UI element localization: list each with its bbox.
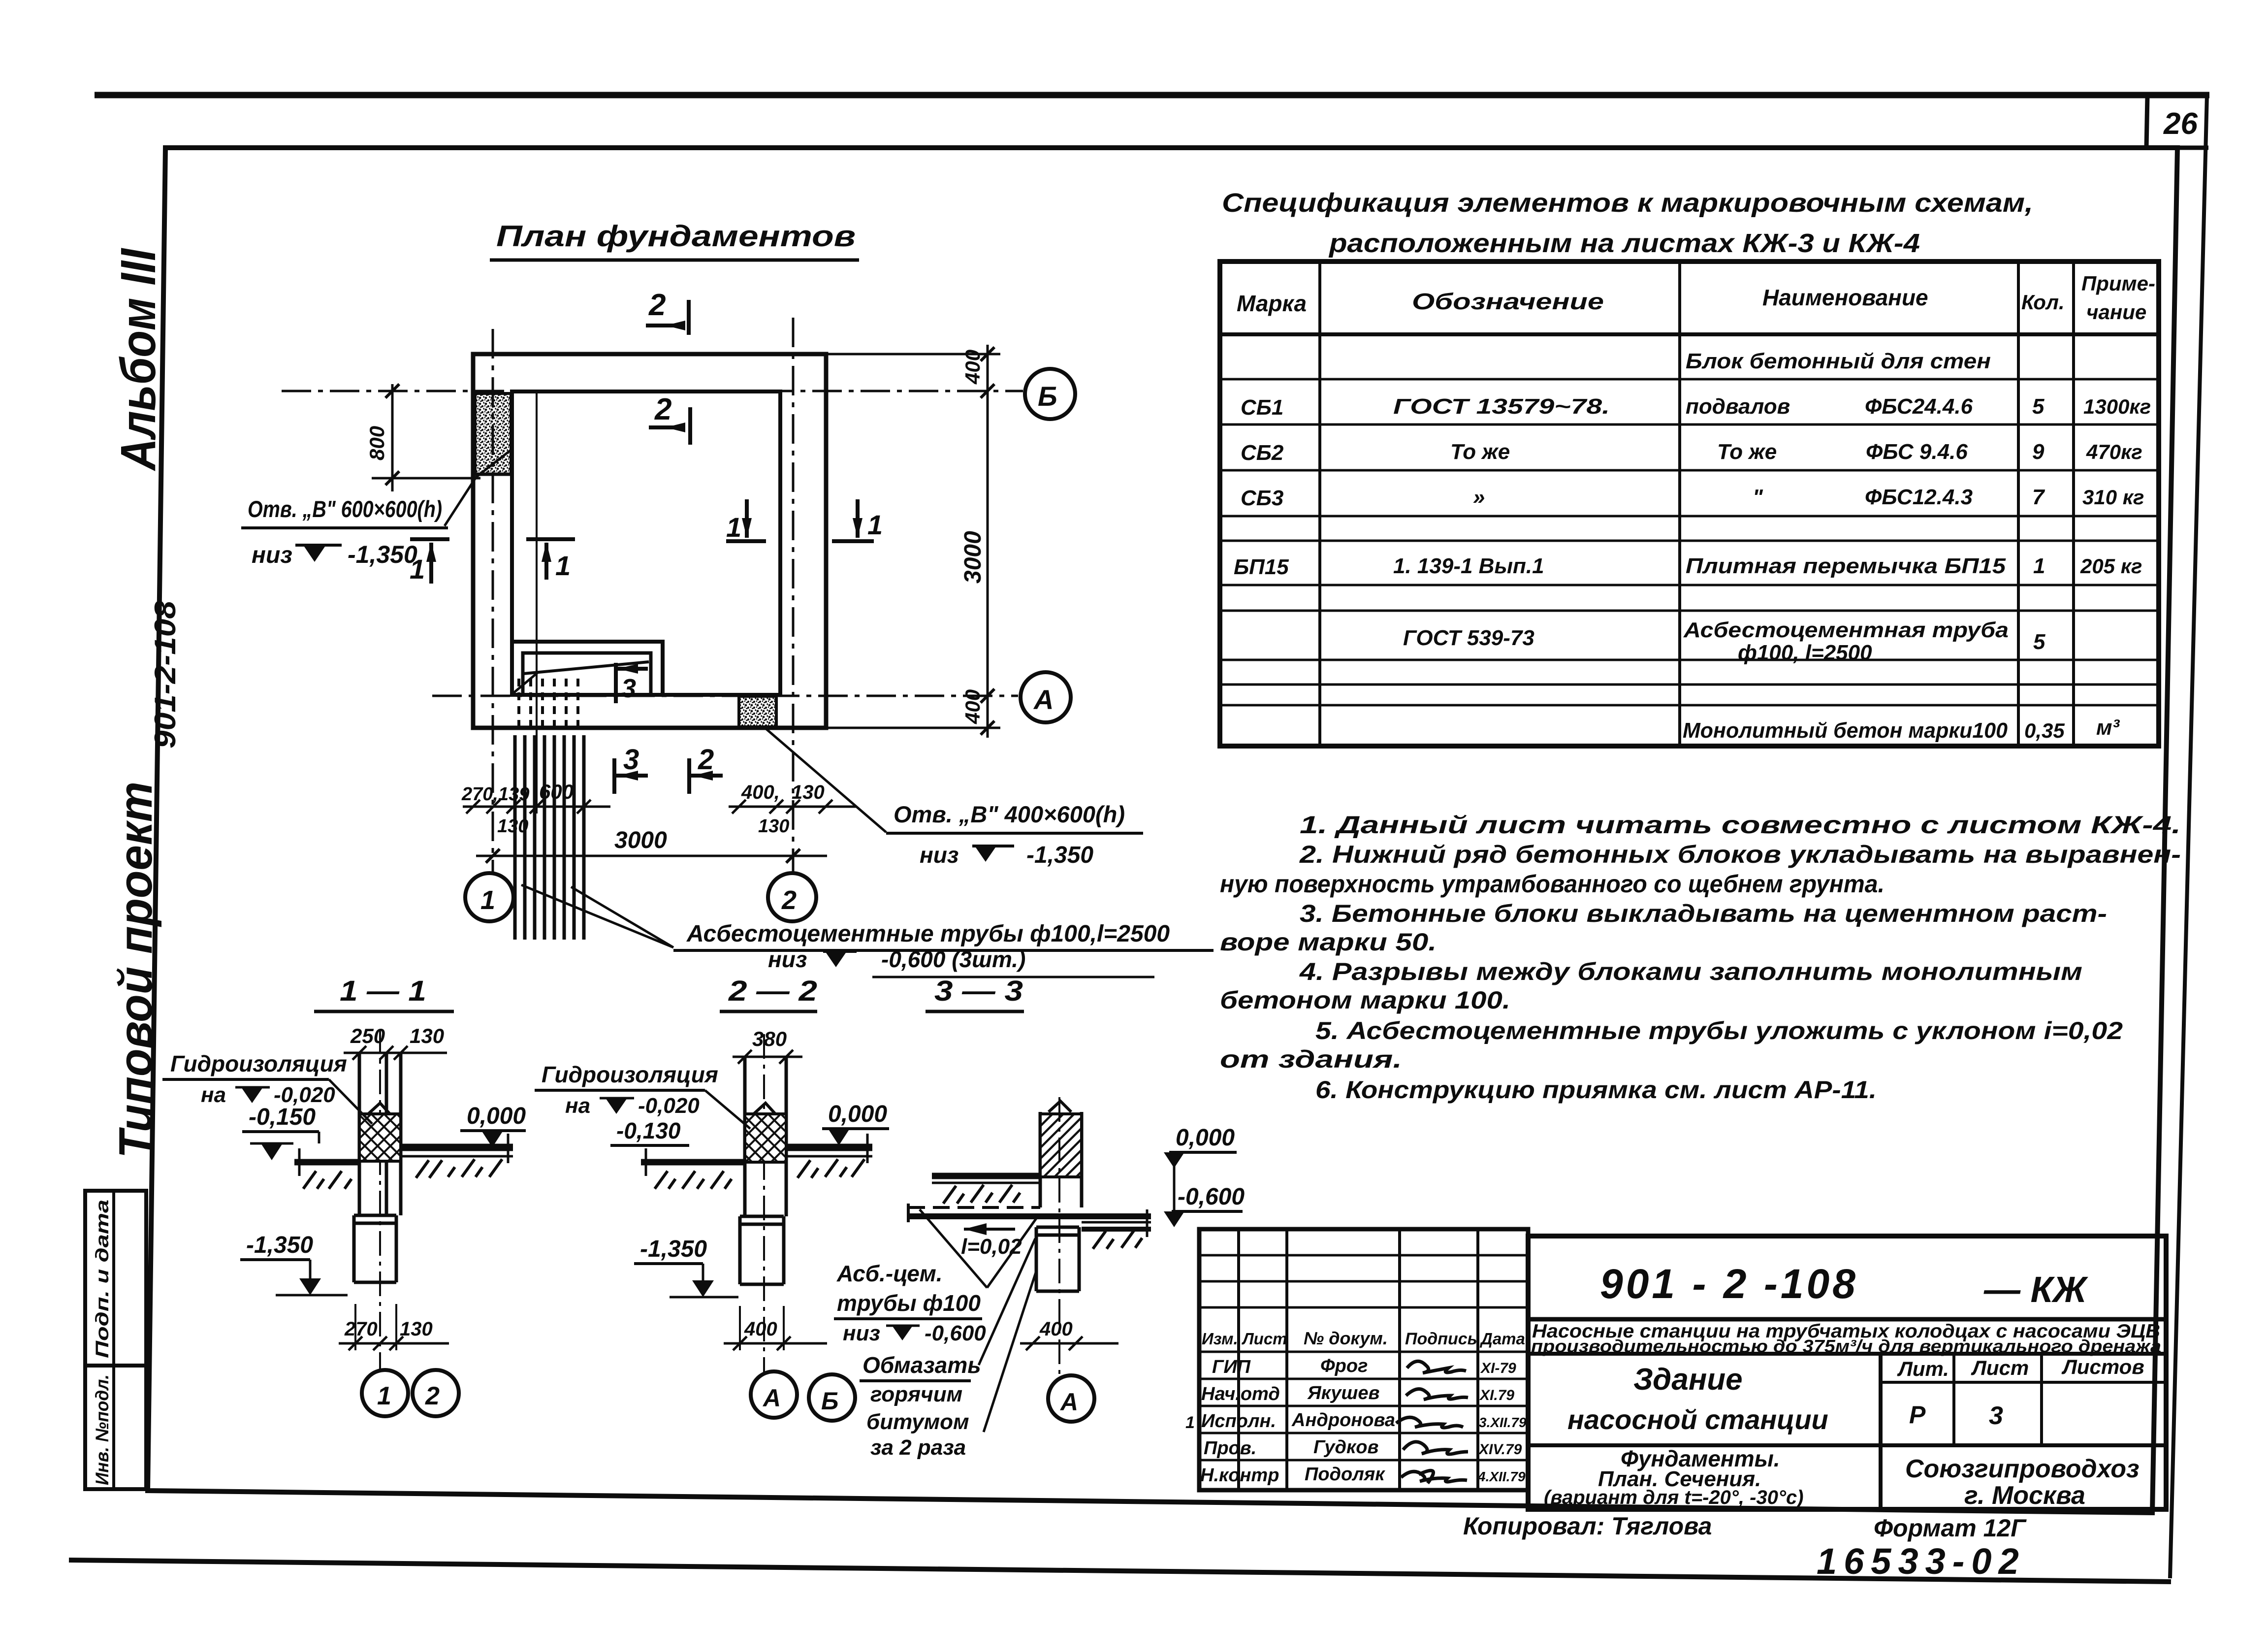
svg-text:Дата: Дата <box>1479 1330 1525 1348</box>
spec table row lines <box>1220 379 2159 705</box>
svg-text:310 кг: 310 кг <box>2082 486 2144 509</box>
svg-text:производительностью до 375м³/ч: производительностью до 375м³/ч для верти… <box>1531 1336 2161 1356</box>
axis 2 dash-dot line <box>792 318 795 873</box>
section flag 3 in pit <box>616 663 648 703</box>
svg-text:ф100, l=2500: ф100, l=2500 <box>1738 641 1872 665</box>
wall column lines <box>745 1058 786 1216</box>
svg-text:2: 2 <box>654 392 671 426</box>
svg-text:ФБС24.4.6: ФБС24.4.6 <box>1865 394 1973 419</box>
section mark 1 outside-left <box>410 539 449 584</box>
section circle A 3-3 <box>1048 1375 1094 1422</box>
svg-text:XIV.79: XIV.79 <box>1478 1441 1522 1458</box>
svg-text:Подпись: Подпись <box>1405 1330 1477 1348</box>
bottom-left dimension chain <box>536 391 538 814</box>
svg-text:Асбестоцементные трубы ф100,: Асбестоцементные трубы ф100,l=2500 <box>686 921 1170 947</box>
svg-text:Обмазать: Обмазать <box>862 1352 981 1378</box>
floor slab right <box>401 1144 513 1151</box>
foundation block 3-3 <box>1036 1227 1079 1291</box>
wall axis dash-dot <box>763 1034 765 1372</box>
plan title underline <box>490 259 859 262</box>
svg-text:3 — 3: 3 — 3 <box>934 975 1023 1007</box>
slope arrow <box>964 1228 1015 1231</box>
ground hatch left of wall <box>303 1171 351 1189</box>
svg-text:Обозначение: Обозначение <box>1412 289 1604 314</box>
svg-text:воре марки 50.: воре марки 50. <box>1220 928 1437 956</box>
svg-text:Нач.отд: Нач.отд <box>1201 1384 1280 1404</box>
wall column 3-3 <box>1040 1112 1082 1207</box>
svg-text:ГИП: ГИП <box>1212 1357 1251 1377</box>
section mark 1 inside-left <box>526 539 575 580</box>
svg-text:А: А <box>762 1384 781 1412</box>
svg-text:от здания.: от здания. <box>1220 1045 1402 1073</box>
svg-text:Б: Б <box>821 1387 838 1415</box>
svg-text:400: 400 <box>961 350 984 385</box>
svg-text:4. Разрывы между блоками за: 4. Разрывы между блоками заполнить монол… <box>1299 958 2082 985</box>
axis B dash-dot line <box>282 390 1023 392</box>
svg-text:1: 1 <box>867 509 883 540</box>
sidebar box: Inv N podl <box>85 1366 146 1489</box>
svg-text:7: 7 <box>2032 485 2045 509</box>
svg-text:То же: То же <box>1450 440 1510 464</box>
svg-text:Андронова: Андронова <box>1291 1410 1395 1431</box>
svg-text:№ докум.: № докум. <box>1304 1328 1388 1348</box>
ground line left 2-2 <box>641 1159 745 1166</box>
svg-text:130: 130 <box>758 816 789 837</box>
svg-text:0,35: 0,35 <box>2024 719 2065 742</box>
pit ramp short line <box>513 673 538 693</box>
ground hatch right of wall <box>416 1159 502 1178</box>
sidebar box: Podp i data <box>85 1191 146 1366</box>
foundation block 2-2 <box>740 1216 784 1284</box>
svg-text:Типовой проект: Типовой проект <box>109 782 162 1158</box>
svg-text:Приме-: Приме- <box>2081 272 2155 295</box>
svg-text:Монолитный бетон марки100: Монолитный бетон марки100 <box>1683 718 2008 743</box>
svg-text:Лист: Лист <box>1242 1330 1287 1348</box>
svg-text:Гудков: Гудков <box>1313 1437 1378 1458</box>
foundation block <box>354 1215 396 1282</box>
svg-text:Пров.: Пров. <box>1204 1438 1256 1459</box>
svg-text:Б: Б <box>1038 381 1057 412</box>
svg-text:2. Нижний ряд бетонных блок: 2. Нижний ряд бетонных блоков укладывать… <box>1299 841 2181 868</box>
svg-text:XI-79: XI-79 <box>1480 1360 1516 1376</box>
svg-text:1300кг: 1300кг <box>2083 395 2151 418</box>
svg-text:1: 1 <box>1185 1413 1195 1432</box>
svg-text:205 кг: 205 кг <box>2080 554 2142 578</box>
svg-text:Якушев: Якушев <box>1307 1383 1379 1403</box>
svg-text:16533-02: 16533-02 <box>1817 1541 2026 1582</box>
svg-text:6. Конструкцию приямка см.: 6. Конструкцию приямка см. лист АР-11. <box>1315 1076 1877 1104</box>
svg-text:26: 26 <box>2163 107 2198 141</box>
svg-text:ную поверхность утрамбованно: ную поверхность утрамбованного со щебнем… <box>1220 870 1885 898</box>
monolithic infill block top-left (stippled) <box>475 393 511 474</box>
svg-text:чание: чание <box>2086 300 2146 324</box>
spec table outer <box>1220 261 2159 746</box>
svg-text:Наименование: Наименование <box>1762 285 1928 310</box>
inner drawing frame <box>148 148 2177 1513</box>
svg-text:380: 380 <box>752 1027 787 1050</box>
svg-text:130: 130 <box>410 1024 444 1047</box>
svg-text:Листов: Листов <box>2061 1355 2144 1378</box>
leader from pipe to note <box>920 1209 1038 1288</box>
axis circle 1 <box>465 873 513 921</box>
signature squiggles <box>1407 1361 1466 1373</box>
svg-text:низ: низ <box>768 946 807 972</box>
svg-text:Н.контр: Н.контр <box>1200 1465 1279 1486</box>
svg-text:План фундаментов: План фундаментов <box>496 220 856 253</box>
svg-text:-1,350: -1,350 <box>246 1232 313 1258</box>
svg-text:м³: м³ <box>2096 716 2120 740</box>
right 400/3000 dimension chain <box>826 353 1000 356</box>
svg-text:1. 139-1 Вып.1: 1. 139-1 Вып.1 <box>1393 554 1544 578</box>
left 800 dimension <box>372 477 480 480</box>
svg-text:(вариант для t=-20°, -30°с): (вариант для t=-20°, -30°с) <box>1544 1487 1804 1508</box>
ground line left <box>294 1159 359 1166</box>
svg-text:-0,020: -0,020 <box>638 1094 700 1118</box>
svg-text:0,000: 0,000 <box>828 1101 887 1127</box>
axis circle B <box>1025 369 1075 419</box>
svg-text:СБ3: СБ3 <box>1241 486 1283 510</box>
svg-text:То же: То же <box>1717 440 1777 464</box>
svg-text:Лист: Лист <box>1971 1356 2029 1379</box>
inner wall rectangle <box>512 391 780 695</box>
vertical divider building name / lit <box>1879 1354 1883 1509</box>
svg-text:Асб.-цем.: Асб.-цем. <box>836 1261 943 1286</box>
svg-text:1. Данный лист читать совме: 1. Данный лист читать совместно с листом… <box>1300 811 2181 839</box>
svg-text:2 — 2: 2 — 2 <box>728 975 817 1007</box>
svg-text:Р: Р <box>1909 1401 1926 1429</box>
section circles 1 and 2 <box>362 1370 408 1416</box>
svg-text:XI.79: XI.79 <box>1479 1387 1514 1403</box>
floor slab right 2-2 <box>786 1144 872 1151</box>
svg-text:130: 130 <box>792 782 825 803</box>
svg-text:Подп. и дата: Подп. и дата <box>92 1200 112 1358</box>
svg-text:-0,600 (3шт.): -0,600 (3шт.) <box>881 946 1025 972</box>
svg-text:2: 2 <box>425 1382 440 1410</box>
svg-text:3000: 3000 <box>960 531 986 584</box>
svg-text:за 2 раза: за 2 раза <box>870 1435 966 1460</box>
outer wall rectangle <box>473 354 826 728</box>
svg-text:1: 1 <box>2033 554 2045 578</box>
svg-text:трубы ф100: трубы ф100 <box>837 1290 981 1316</box>
svg-text:5: 5 <box>2032 394 2044 419</box>
svg-text:Формат 12Г: Формат 12Г <box>1874 1514 2027 1542</box>
svg-text:низ: низ <box>920 842 958 868</box>
svg-text:Асбестоцементная труба: Асбестоцементная труба <box>1683 618 2009 642</box>
title block main outline <box>1528 1236 2166 1509</box>
pipe bottom thick line <box>908 1213 1151 1219</box>
section circles A and B <box>751 1371 797 1418</box>
asbestos pipes bundle <box>515 735 584 940</box>
ground hatch left 2-2 <box>655 1171 732 1189</box>
leaders to asbestos pipe note <box>521 885 673 947</box>
svg-text:СБ1: СБ1 <box>1241 395 1283 420</box>
svg-text:бетоном марки 100.: бетоном марки 100. <box>1220 986 1510 1014</box>
bottom-right dimension chain <box>729 806 857 808</box>
svg-text:Союзгипроводхоз: Союзгипроводхоз <box>1905 1455 2140 1483</box>
pit (priyamok) outer <box>512 642 663 695</box>
svg-text:-0,600: -0,600 <box>1178 1184 1245 1210</box>
svg-text:Блок бетонный для стен: Блок бетонный для стен <box>1686 349 1991 373</box>
svg-text:l=0,02: l=0,02 <box>961 1235 1022 1259</box>
bottom dim 400 3-3 <box>1020 1342 1118 1345</box>
sheet number box <box>2146 97 2147 148</box>
hatched wall 3-3 <box>1040 1114 1082 1177</box>
outer right border line <box>2170 95 2207 1578</box>
svg-text:3: 3 <box>623 744 639 776</box>
svg-text:БП15: БП15 <box>1234 555 1289 579</box>
svg-text:130: 130 <box>400 1318 433 1340</box>
spec table header bottom <box>1220 332 2159 336</box>
ground hatch right 2-2 <box>798 1159 864 1178</box>
svg-text:-0,600: -0,600 <box>925 1321 986 1345</box>
svg-text:Здание: Здание <box>1633 1363 1743 1397</box>
svg-text:3: 3 <box>621 674 636 703</box>
svg-text:на: на <box>201 1083 226 1107</box>
svg-text:Отв. „В" 400×600(h): Отв. „В" 400×600(h) <box>894 801 1125 827</box>
svg-text:подвалов: подвалов <box>1686 394 1790 419</box>
svg-text:-1,350: -1,350 <box>348 541 417 568</box>
svg-text:А: А <box>1033 684 1054 715</box>
ground hatch left 3-3 <box>943 1185 1020 1204</box>
svg-text:901 - 2 -108: 901 - 2 -108 <box>1600 1261 1858 1307</box>
svg-text:3.XII.79: 3.XII.79 <box>1479 1415 1527 1430</box>
svg-text:горячим: горячим <box>870 1382 962 1406</box>
svg-text:низ: низ <box>843 1321 880 1345</box>
cross-hatched wall section <box>359 1114 401 1161</box>
pipes dashed through wall <box>519 679 578 734</box>
svg-text:Гидроизоляция: Гидроизоляция <box>170 1051 347 1076</box>
axis circle 2 <box>768 873 816 921</box>
axis A dash-dot line <box>432 695 1018 697</box>
outer top border line <box>95 92 2209 98</box>
svg-text:0,000: 0,000 <box>467 1103 526 1129</box>
svg-text:ГОСТ 13579~78.: ГОСТ 13579~78. <box>1393 394 1610 419</box>
svg-text:насосной станции: насосной станции <box>1567 1404 1828 1435</box>
svg-text:0,000: 0,000 <box>1176 1125 1235 1151</box>
row: project name cell bottom <box>1528 1352 2166 1356</box>
section mark 2 below wall <box>689 758 723 794</box>
svg-text:2: 2 <box>648 288 666 322</box>
section mark 1 right of right wall <box>832 499 874 541</box>
svg-text:5. Асбестоцементные трубы ул: 5. Асбестоцементные трубы уложить с укло… <box>1315 1017 2123 1044</box>
axis 3-3 <box>1058 1097 1060 1374</box>
svg-text:ГОСТ 539-73: ГОСТ 539-73 <box>1403 626 1534 650</box>
ground line right 3-3 <box>1082 1221 1151 1224</box>
cross-hatched wall section 2-2 <box>745 1114 786 1162</box>
svg-text:Инв. №подл.: Инв. №подл. <box>92 1374 112 1485</box>
svg-text:-1,350: -1,350 <box>640 1236 707 1262</box>
svg-text:1: 1 <box>555 550 571 581</box>
svg-text:400,: 400, <box>741 782 780 803</box>
title block left table outer <box>1199 1229 1528 1490</box>
svg-text:270,139: 270,139 <box>461 784 529 805</box>
wall column lines <box>359 1054 401 1215</box>
bottom dim 400 2-2 <box>740 1306 784 1350</box>
svg-text:400: 400 <box>961 689 984 724</box>
pit ramp line <box>523 662 649 674</box>
svg-text:5: 5 <box>2033 630 2045 654</box>
svg-text:400: 400 <box>1039 1318 1073 1340</box>
svg-text:г. Москва: г. Москва <box>1964 1481 2085 1510</box>
middle band divider <box>1528 1443 2166 1447</box>
svg-text:3: 3 <box>1989 1401 2003 1430</box>
svg-text:Плитная перемычка БП15: Плитная перемычка БП15 <box>1686 554 2006 578</box>
outer bottom border line <box>69 1560 2171 1582</box>
svg-text:270: 270 <box>344 1318 378 1340</box>
svg-text:низ: низ <box>252 542 292 568</box>
svg-text:901-2-108: 901-2-108 <box>149 600 182 749</box>
svg-text:470кг: 470кг <box>2086 440 2142 463</box>
axis 1 dash-dot line <box>492 329 494 873</box>
svg-text:3. Бетонные блоки выкладыват: 3. Бетонные блоки выкладывать на цементн… <box>1300 900 2107 927</box>
ground line left 3-3 <box>932 1173 1040 1179</box>
pit inner offset <box>523 653 651 695</box>
left table columns <box>1239 1229 1478 1490</box>
svg-text:— КЖ: — КЖ <box>1983 1269 2088 1310</box>
leaders obmazat <box>979 1238 1037 1432</box>
svg-text:9: 9 <box>2032 440 2044 464</box>
3000 dimension bottom <box>476 855 827 857</box>
left table rows <box>1199 1255 1528 1460</box>
svg-text:Гидроизоляция: Гидроизоляция <box>542 1062 718 1087</box>
svg-text:1: 1 <box>480 885 495 915</box>
svg-text:-0,150: -0,150 <box>249 1104 316 1130</box>
svg-text:Фрог: Фрог <box>1320 1356 1368 1376</box>
section mark 3 below wall <box>614 758 648 794</box>
svg-text:расположенным на листах КЖ-: расположенным на листах КЖ-3 и КЖ-4 <box>1328 228 1920 258</box>
svg-text:1: 1 <box>377 1382 391 1410</box>
svg-text:Копировал: Тяглова: Копировал: Тяглова <box>1463 1512 1712 1540</box>
svg-text:Отв. „В" 600×600(h): Отв. „В" 600×600(h) <box>248 496 442 522</box>
svg-text:СБ2: СБ2 <box>1241 441 1284 465</box>
svg-text:-0,020: -0,020 <box>274 1083 335 1107</box>
svg-text:Альбом III: Альбом III <box>111 248 166 472</box>
svg-text:400: 400 <box>744 1318 777 1340</box>
wall axis dash-dot <box>379 1029 381 1370</box>
svg-text:ФБС12.4.3: ФБС12.4.3 <box>1865 485 1973 509</box>
svg-text:Марка: Марка <box>1237 291 1307 316</box>
monolithic infill block bottom wall (stippled) <box>739 696 776 727</box>
infill block bottom edge <box>475 473 511 476</box>
svg-text:»: » <box>1473 485 1485 509</box>
svg-text:Подоляк: Подоляк <box>1305 1464 1385 1485</box>
svg-text:-0,130: -0,130 <box>616 1118 681 1143</box>
svg-text:на: на <box>565 1094 590 1118</box>
bottom dim 270 130 <box>355 1304 396 1350</box>
svg-text:4.XII.79: 4.XII.79 <box>1477 1469 1526 1484</box>
svg-text:": " <box>1753 485 1763 509</box>
row: project number cell bottom <box>1528 1317 2166 1322</box>
svg-text:2: 2 <box>781 885 797 915</box>
svg-text:Изм.: Изм. <box>1202 1330 1238 1348</box>
spec table columns <box>1320 261 2074 746</box>
leader Otv B 400x600 bottom right <box>766 729 886 832</box>
axis circle A <box>1021 672 1071 722</box>
svg-text:Исполн.: Исполн. <box>1201 1411 1276 1432</box>
svg-text:Спецификация элементов к ма: Спецификация элементов к маркировочным с… <box>1222 188 2033 218</box>
svg-text:Кол.: Кол. <box>2021 291 2065 314</box>
svg-text:А: А <box>1059 1388 1078 1416</box>
svg-text:3000: 3000 <box>614 827 667 853</box>
svg-text:800: 800 <box>365 426 388 460</box>
svg-text:-1,350: -1,350 <box>1026 842 1093 868</box>
lit list listov dividers <box>1954 1354 2042 1445</box>
svg-text:1: 1 <box>726 512 741 543</box>
sidebar box divider <box>112 1191 115 1489</box>
asbestos pipe dashed <box>908 1206 1040 1209</box>
svg-text:Лит.: Лит. <box>1897 1357 1949 1380</box>
svg-text:2: 2 <box>698 744 714 776</box>
ground hatch right 3-3 <box>1093 1230 1142 1249</box>
svg-text:1 — 1: 1 — 1 <box>340 975 426 1007</box>
svg-text:битумом: битумом <box>866 1410 969 1434</box>
svg-text:ФБС 9.4.6: ФБС 9.4.6 <box>1866 440 1968 464</box>
